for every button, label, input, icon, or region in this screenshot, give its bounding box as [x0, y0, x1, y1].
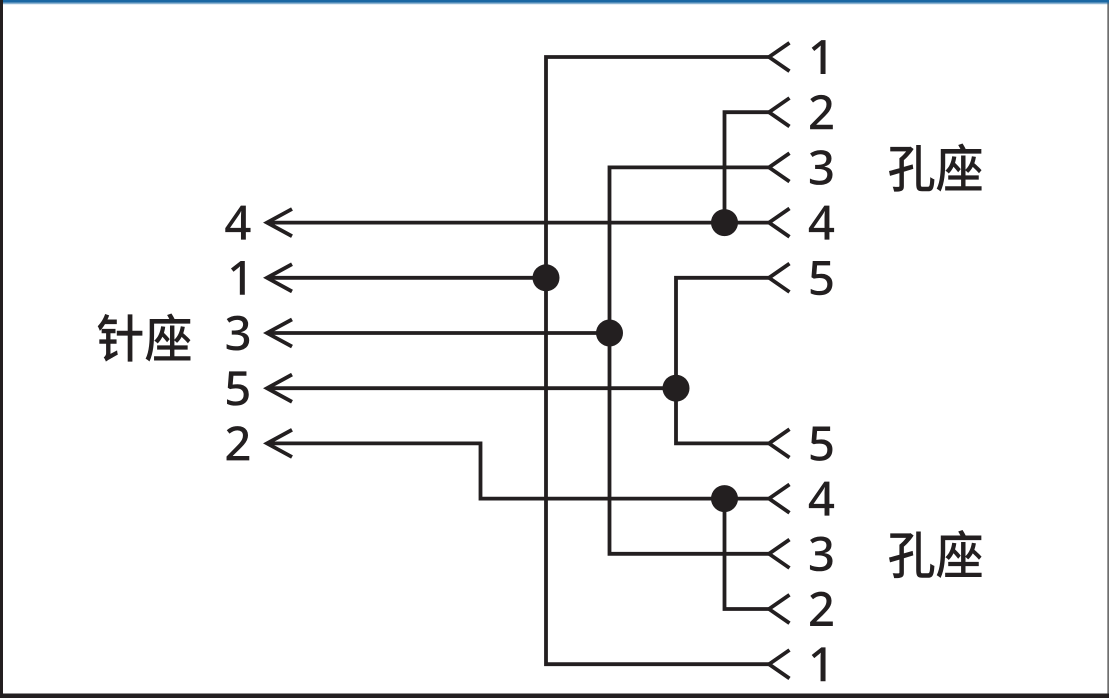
wire: pin-header 5 to bus — [267, 386, 676, 390]
label top socket pin 5 — [811, 261, 833, 295]
wire: top socket 3 / bottom socket 3 bus via header 3 — [610, 167, 770, 553]
contact fork bottom socket pin 4 — [769, 484, 790, 512]
contact fork top socket pin 2 — [769, 98, 790, 126]
arrowhead header pin 1 — [267, 264, 292, 291]
junction: header3/socket3 bus — [596, 320, 623, 347]
right gray border — [1107, 0, 1109, 698]
label bottom 孔座 char 座 — [937, 530, 982, 578]
wire: pin-header 1 to bus — [267, 276, 546, 280]
label 针座 char 座 — [146, 313, 191, 361]
label 针座 char 针 — [98, 314, 143, 362]
label top 孔座 char 孔 — [889, 145, 934, 192]
wire: pin-header 4 to top socket 4 — [267, 221, 769, 225]
junction: header1/socket1 bus — [533, 264, 560, 291]
label header pin 2 — [227, 426, 250, 460]
arrowhead header pin 4 — [267, 209, 292, 236]
label header pin 3 — [227, 316, 250, 351]
left black border — [0, 0, 3, 698]
label header pin 5 — [227, 371, 249, 405]
arrowhead header pin 2 — [267, 430, 292, 457]
junction: header5/socket5 bus — [663, 375, 690, 402]
label bottom socket pin 2 — [810, 592, 833, 626]
top blue rule — [2, 0, 1109, 2]
wire: top socket 1 / bottom socket 1 bus via header 1 — [546, 57, 769, 664]
label bottom socket pin 5 — [811, 427, 833, 461]
arrowhead header pin 5 — [267, 375, 292, 402]
label bottom socket pin 1 — [812, 647, 826, 681]
bottom black border — [0, 694, 1109, 698]
wire: top socket 5 / bottom socket 5 bus via header 5 — [676, 278, 769, 444]
wire: pin-header 3 to bus — [267, 331, 610, 335]
label header pin 1 — [231, 261, 245, 295]
label top 孔座 char 座 — [937, 143, 982, 191]
wire: pin-header 2 jog to bottom socket 4 — [267, 443, 769, 498]
arrowhead header pin 3 — [267, 319, 292, 346]
contact fork top socket pin 5 — [769, 264, 790, 292]
contact fork bottom socket pin 3 — [769, 540, 790, 568]
label bottom socket pin 4 — [809, 482, 834, 516]
label top socket pin 1 — [812, 40, 826, 74]
contact fork bottom socket pin 5 — [769, 429, 790, 457]
junction: bottom socket2 on pin4 line — [711, 485, 738, 512]
label top socket pin 4 — [809, 206, 834, 240]
label header pin 4 — [225, 206, 250, 240]
contact fork top socket pin 4 — [769, 208, 790, 236]
wire: top socket 2 drop to pin-4 line — [725, 112, 770, 222]
label bottom 孔座 char 孔 — [889, 532, 934, 579]
contact fork top socket pin 1 — [769, 43, 790, 71]
contact fork bottom socket pin 2 — [769, 595, 790, 623]
contact fork bottom socket pin 1 — [769, 650, 790, 678]
wire: bottom socket 2 rise to pin-4 line — [725, 499, 770, 609]
junction: top socket2 on pin4 line — [711, 209, 738, 236]
label bottom socket pin 3 — [810, 536, 833, 571]
label top socket pin 3 — [810, 150, 833, 185]
label top socket pin 2 — [810, 95, 833, 129]
contact fork top socket pin 3 — [769, 153, 790, 181]
